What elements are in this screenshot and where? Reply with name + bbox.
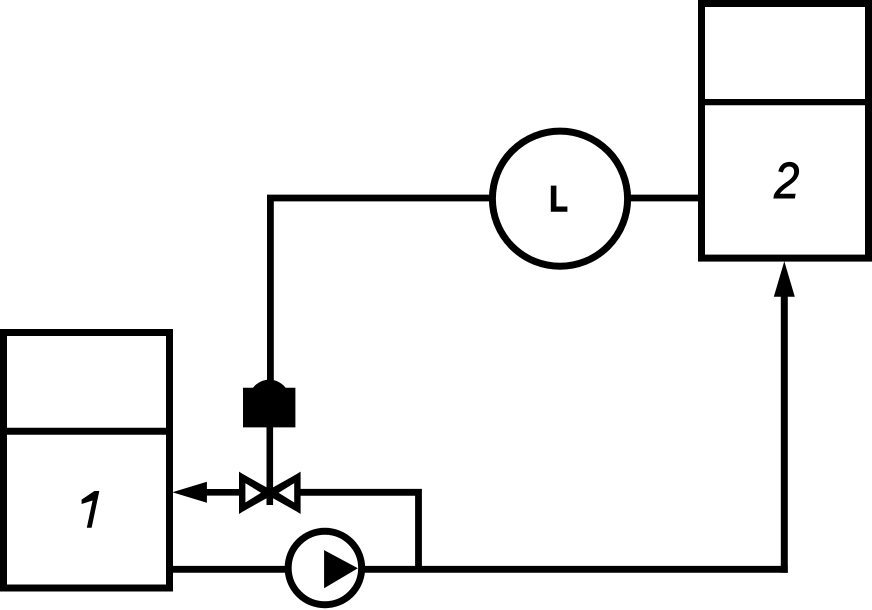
pipe valve to tank 1 (204, 489, 242, 496)
tank 2 (698, 4, 872, 259)
arrow into tank 2 (774, 261, 795, 297)
pipe valve branch down to pump line (300, 492, 419, 569)
arrow into tank 1 (172, 482, 207, 503)
tank 1 (0, 333, 173, 589)
label 1 (82, 491, 100, 528)
valve actuator (243, 380, 295, 428)
pipe tank 1 to pump to riser (166, 566, 788, 573)
signal wire L to valve actuator (270, 198, 489, 384)
label L (551, 186, 568, 212)
control valve (242, 477, 297, 508)
pump P1 (288, 531, 362, 605)
signal wire L to tank 2 (630, 195, 700, 202)
svg-text:2: 2 (773, 153, 799, 210)
level transmitter L (492, 131, 627, 266)
valve stem (266, 427, 273, 505)
pipe riser to tank 2 (781, 290, 788, 573)
